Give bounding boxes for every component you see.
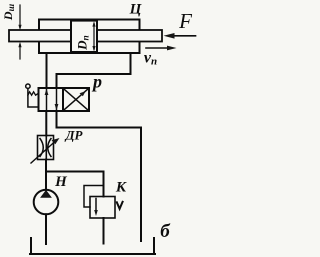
- valve left position: straight paths with arrows: [45, 88, 59, 111]
- wire: valve return (down, right, down to tank): [57, 111, 142, 241]
- throttle arcs: [40, 139, 51, 157]
- svg-text:б: б: [160, 221, 171, 242]
- svg-text:К: К: [115, 180, 127, 196]
- relief valve arrow: [94, 199, 98, 217]
- wire: valve to throttle: [45, 111, 47, 136]
- valve P body: [39, 88, 90, 111]
- svg-text:Н: Н: [54, 174, 68, 190]
- piston: [71, 21, 97, 52]
- svg-text:F: F: [178, 9, 192, 33]
- wire: cylinder left port down to valve: [46, 53, 48, 88]
- rod (right side): [97, 30, 162, 42]
- valve actuator: button circle: [26, 84, 30, 88]
- svg-text:Dш: Dш: [1, 3, 16, 21]
- tank Б: [30, 238, 155, 254]
- pump triangle: [40, 190, 52, 198]
- dimension Dш arrows: [18, 5, 21, 59]
- cylinder Ц body: [39, 20, 140, 54]
- svg-text:p: p: [91, 72, 102, 92]
- valve right position: crossed paths: [64, 89, 89, 111]
- relief valve К body: [90, 197, 115, 219]
- svg-text:ДР: ДР: [65, 128, 84, 143]
- svg-text:Ц: Ц: [129, 2, 143, 18]
- relief valve pilot line: [84, 186, 104, 208]
- pump Н circle: [34, 190, 59, 215]
- wire: relief valve drain: [103, 218, 105, 244]
- throttle adjust arrow: [31, 138, 60, 163]
- wire: cylinder right port to valve (down, left, down): [57, 53, 131, 88]
- valve spring: [28, 92, 39, 95]
- actuator stem: [28, 88, 39, 107]
- rod (left side): [9, 30, 71, 42]
- wire: tee to relief valve: [46, 172, 104, 197]
- wire: pump suction: [45, 214, 47, 244]
- relief valve spring: [117, 202, 123, 209]
- wire through throttle: [45, 136, 47, 160]
- dimension Dп arrow: [92, 21, 95, 51]
- wire: throttle to pump: [45, 160, 47, 191]
- force F arrow: [164, 33, 196, 39]
- throttle ДР body: [38, 136, 54, 160]
- velocity vп arrow: [146, 46, 177, 51]
- svg-text:vп: vп: [144, 50, 157, 68]
- valve divider: [62, 88, 64, 111]
